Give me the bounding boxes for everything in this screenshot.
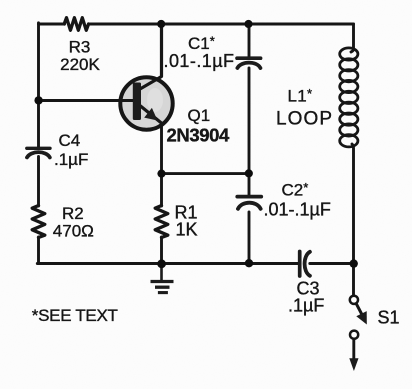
svg-text:.01-.1µF: .01-.1µF [164, 51, 235, 71]
svg-text:*SEE TEXT: *SEE TEXT [32, 306, 118, 325]
svg-text:.1µF: .1µF [288, 296, 324, 316]
svg-text:S1: S1 [378, 308, 400, 328]
svg-text:LOOP: LOOP [276, 109, 333, 130]
svg-text:2N3904: 2N3904 [167, 125, 231, 146]
svg-text:R3: R3 [69, 38, 91, 57]
svg-text:Q1: Q1 [188, 106, 211, 125]
svg-text:.1µF: .1µF [54, 150, 88, 169]
svg-text:470Ω: 470Ω [53, 222, 94, 241]
svg-text:C4: C4 [59, 131, 81, 150]
svg-text:.01-.1µF: .01-.1µF [264, 200, 331, 220]
svg-text:R2: R2 [62, 204, 84, 223]
svg-text:220K: 220K [60, 55, 100, 74]
svg-text:1K: 1K [176, 220, 198, 240]
